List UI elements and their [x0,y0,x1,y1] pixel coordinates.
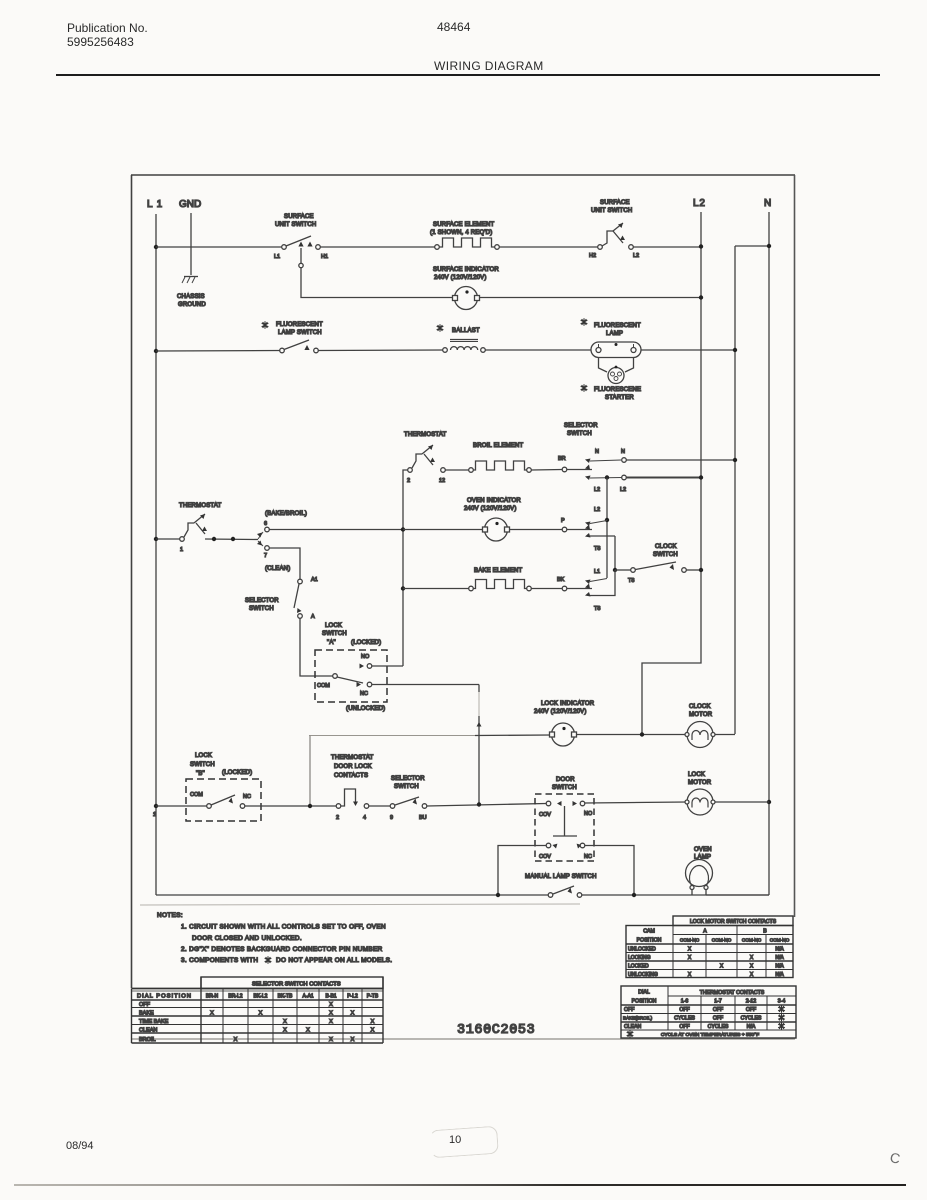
svg-text:1: 1 [153,812,156,818]
wire bake element to BK [532,588,563,590]
svg-text:GND: GND [179,199,201,210]
svg-text:2-12: 2-12 [746,999,756,1005]
terminal BR [558,456,592,472]
wire indicator to L2 bus [480,297,702,299]
junction L2 drop at clock motor row [640,732,644,736]
door-lock selector switch [390,776,427,821]
svg-text:COM-NO: COM-NO [770,938,790,943]
svg-text:BK-TB: BK-TB [278,993,293,999]
svg-text:2. DG"X" DENOTES BACKGUARD CO: 2. DG"X" DENOTES BACKGUARD CONNECTOR PIN… [181,946,383,953]
surface unit switch S2 [589,200,639,259]
svg-text:COM-NC: COM-NC [680,938,700,943]
svg-text:X: X [283,1028,287,1034]
selector contact BK to x607 blade [585,580,591,585]
notes block [157,912,392,964]
wire lock A NO up to bake row [372,665,403,667]
svg-text:COM: COM [190,792,203,798]
junction L2 bus (broil row) [699,475,703,479]
svg-text:OFF: OFF [679,1024,689,1030]
junction L1 row1 [154,245,158,249]
svg-text:H1: H1 [321,254,328,260]
svg-text:DIAL: DIAL [638,990,650,996]
svg-text:L 1: L 1 [147,199,163,210]
wire oven indicator to P terminal [510,529,563,531]
svg-text:6: 6 [264,521,267,527]
junction broil riser at indicator row [401,527,405,531]
junction L1 thermostat row [154,537,158,541]
svg-text:OVEN INDICATOR: OVEN INDICATOR [467,498,521,504]
junction L1 door lock row [154,804,158,808]
svg-text:THERMOSTAT: THERMOSTAT [331,755,374,761]
svg-text:LOCKING: LOCKING [628,955,651,961]
svg-text:BAKE ELEMENT: BAKE ELEMENT [474,568,523,574]
wire switch2 to L2 bus [634,246,702,248]
svg-text:CYCLES: CYCLES [674,1016,695,1022]
svg-text:N/A: N/A [775,955,784,961]
selector switch A1-A [245,577,318,620]
junction x735 at N contact row [733,458,737,462]
surface indicator lamp 240V [433,267,499,310]
wire L1 bus [155,214,157,895]
wire manual lamp switch to oven lamp [582,894,769,896]
terminal on drop [299,263,303,267]
svg-text:X: X [306,1028,310,1034]
svg-text:P: P [561,518,565,524]
wire L2 contact to L2 bus (heavy) [627,477,702,479]
svg-text:7: 7 [264,553,267,559]
svg-text:BALLAST: BALLAST [452,328,480,334]
junction x607 at P row [605,518,609,522]
svg-text:LOCK: LOCK [688,772,705,778]
svg-text:A-A1: A-A1 [302,993,313,999]
junction clock switch left [613,568,617,572]
svg-text:(UNLOCKED): (UNLOCKED) [346,706,385,712]
svg-text:CLEAN: CLEAN [624,1024,642,1030]
ballast [437,324,486,352]
junction L1 row2 [154,349,158,353]
svg-text:X: X [283,1019,287,1025]
svg-text:GROUND: GROUND [178,302,206,308]
header: document number 48464 [437,20,470,34]
wire L1 to fluorescent lamp switch [156,350,280,353]
svg-text:POSITION: POSITION [632,999,657,1005]
svg-text:T8: T8 [594,606,600,612]
selector contact P to T8 [585,533,615,552]
manual lamp switch [525,874,597,897]
svg-text:SWITCH: SWITCH [249,606,274,612]
svg-text:THERMOSTAT CONTACTS: THERMOSTAT CONTACTS [700,990,765,996]
svg-text:OVEN: OVEN [694,847,712,853]
terminal P [561,518,592,532]
svg-text:X: X [329,1011,333,1017]
svg-text:SWITCH: SWITCH [322,631,347,637]
wire lock B to thermostat door lock contacts [245,805,336,807]
wire L1 to surface unit switch [156,246,282,248]
door switch dashed box [535,777,594,861]
wire lock motor to N bus [715,801,769,803]
wire (BAKE/BROIL) to broil riser [270,529,404,531]
svg-text:DOOR CLOSED AND UNLOCKED.: DOOR CLOSED AND UNLOCKED. [192,935,302,942]
svg-text:OFF: OFF [624,1007,634,1013]
clock motor [685,704,715,748]
svg-text:LAMP SWITCH: LAMP SWITCH [278,330,322,336]
svg-text:L2: L2 [594,507,600,513]
wire bake row to BK terminal [403,588,469,590]
wire drop from switch S1 to indicator row [300,248,302,263]
wire door switch lower NC to x634 drop [585,846,634,894]
wire clock motor to x735 riser [715,734,735,736]
svg-text:L2: L2 [633,253,639,259]
svg-text:2: 2 [336,815,339,821]
svg-text:LOCK: LOCK [325,623,342,629]
selector contact (CLEAN) [257,541,290,573]
oven indicator lamp 240V [464,498,521,541]
svg-text:H2: H2 [589,253,596,259]
svg-text:CYCLES: CYCLES [708,1024,729,1030]
svg-text:N/A: N/A [775,964,784,970]
svg-text:A1: A1 [311,577,318,583]
svg-text:NC: NC [243,794,251,800]
svg-text:BAKE(BROIL): BAKE(BROIL) [623,1016,653,1021]
svg-text:UNIT SWITCH: UNIT SWITCH [275,222,316,228]
node L2 [693,198,706,209]
svg-text:COV: COV [539,854,551,860]
svg-text:FLUORESCENT: FLUORESCENT [594,323,641,329]
wire clock switch to L2 bus [687,569,702,571]
wire L1 to lock switch B [156,805,207,807]
wire L2 bus [642,212,701,734]
svg-text:B-B1: B-B1 [325,993,336,999]
svg-text:X: X [351,1011,355,1017]
svg-text:SURFACE ELEMENT: SURFACE ELEMENT [433,222,494,228]
svg-text:SURFACE: SURFACE [284,214,314,220]
bake element [469,568,532,591]
surface unit switch S1 [274,214,328,260]
wire switch to surface element [320,246,435,248]
svg-text:SWITCH: SWITCH [190,762,215,768]
svg-text:3-4: 3-4 [778,999,786,1005]
footer: page number 10 [449,1134,461,1146]
oven thermostat (bake) [179,503,222,553]
svg-text:1: 1 [180,547,183,553]
svg-text:X: X [750,964,754,970]
svg-text:240V (120V/120V): 240V (120V/120V) [534,709,587,715]
svg-text:3. COMPONENTS WITH: 3. COMPONENTS WITH [181,957,258,964]
svg-text:UNIT SWITCH: UNIT SWITCH [591,208,632,214]
wire lamp to N riser [641,349,735,351]
svg-text:CAM: CAM [643,929,655,935]
svg-text:CLOCK: CLOCK [689,704,711,710]
svg-text:X: X [259,1011,263,1017]
junction L2 row1 [699,244,703,248]
svg-text:MANUAL LAMP SWITCH: MANUAL LAMP SWITCH [525,874,597,880]
svg-text:(LOCKED): (LOCKED) [222,770,252,776]
wire switch to ballast [319,349,444,352]
svg-text:SURFACE INDICATOR: SURFACE INDICATOR [433,267,499,273]
node N [764,198,772,209]
svg-text:(1 SHOWN, 4 REQ'D): (1 SHOWN, 4 REQ'D) [430,230,492,236]
node GND [179,199,201,210]
svg-text:240V (120V/120V): 240V (120V/120V) [434,275,487,281]
junction broil riser at bake row [401,586,405,590]
junction x479 at door row [477,802,481,806]
svg-text:NOTES:: NOTES: [157,912,183,919]
svg-text:X: X [688,947,692,953]
svg-text:X: X [371,1028,375,1034]
svg-text:TIME BAKE: TIME BAKE [139,1019,169,1025]
wire T8 riser upper [614,536,616,570]
svg-text:X: X [329,1019,333,1025]
svg-text:BROIL ELEMENT: BROIL ELEMENT [473,443,524,449]
svg-text:DOOR: DOOR [556,777,575,783]
fluorescent lamp [581,318,641,357]
svg-text:OFF: OFF [679,1007,689,1013]
svg-text:9: 9 [390,815,393,821]
clock switch [628,544,686,584]
surface element R1 [430,222,499,249]
wire N contact to x735 riser [627,459,736,461]
oven lamp [686,847,713,895]
svg-text:X: X [329,1037,333,1043]
junction x634 bottom [632,893,636,897]
svg-text:OFF: OFF [746,1007,756,1013]
junction N riser row2 [733,348,737,352]
selector contact P to L2 blade [585,522,591,527]
svg-text:BAKE: BAKE [139,1011,154,1017]
svg-text:DIAL POSITION: DIAL POSITION [137,994,192,1000]
svg-text:L1: L1 [274,254,280,260]
wire element to surface unit switch 2 [500,246,599,248]
svg-text:LAMP: LAMP [606,331,623,337]
footer swirl mark [889,1149,902,1167]
footer smudge around page number [429,1126,499,1159]
wire lock A NC to x479 drop [372,684,479,686]
wire lock indicator to clock motor [577,734,688,736]
svg-text:1-6: 1-6 [681,999,689,1005]
svg-text:MOTOR: MOTOR [688,780,712,786]
svg-text:SELECTOR: SELECTOR [245,598,279,604]
svg-text:L2: L2 [594,487,600,493]
selector contact (BAKE/BROIL) [257,511,307,539]
wire broil element to BR terminal [532,469,563,472]
svg-text:SELECTOR: SELECTOR [564,423,598,429]
selector switch contacts table [132,977,384,1043]
selector switch label (right) [564,423,598,437]
thermostat contacts table [621,986,796,1038]
svg-text:BU: BU [419,815,427,821]
svg-text:UNLOCKING: UNLOCKING [628,972,658,978]
svg-text:COV: COV [539,812,551,818]
svg-text:N: N [764,198,772,209]
svg-text:240V (120V/120V): 240V (120V/120V) [464,506,517,512]
footer: date [66,1140,94,1152]
svg-text:UNLOCKED: UNLOCKED [628,947,656,953]
svg-text:BR: BR [558,456,566,462]
svg-text:FLUORESCENT: FLUORESCENT [276,322,323,328]
header: WIRING DIAGRAM title [434,59,544,75]
wire N bus [768,212,770,895]
junction N at lock motor [767,800,771,804]
svg-text:FLUORESCENE: FLUORESCENE [594,387,641,393]
svg-text:LOCK MOTOR SWITCH CONTACTS: LOCK MOTOR SWITCH CONTACTS [690,919,777,925]
fluorescent lamp switch [262,321,323,353]
svg-text:SURFACE: SURFACE [600,200,630,206]
wire thermostat to selector fork [205,538,258,541]
lock indicator lamp 240V [534,701,595,746]
broil element [469,443,532,472]
selector contact L2 row (broil) [585,475,626,493]
svg-text:1-7: 1-7 [714,999,722,1005]
svg-text:OFF: OFF [139,1002,151,1008]
svg-text:THERMOSTAT: THERMOSTAT [179,503,222,509]
svg-text:(CLEAN): (CLEAN) [265,566,290,572]
svg-text:SELECTOR: SELECTOR [391,776,425,782]
wire thermostat to broil element [446,469,470,471]
svg-text:X: X [234,1037,238,1043]
svg-text:A: A [703,929,707,935]
ground: chassis ground symbol [177,277,206,309]
svg-text:2: 2 [407,478,410,484]
svg-text:BROIL: BROIL [139,1037,156,1043]
lock motor [685,772,715,815]
svg-text:BK-L2: BK-L2 [254,993,268,999]
junction N top [767,244,771,248]
wire selector to door switch [427,804,546,807]
svg-text:N/A: N/A [775,947,784,953]
svg-text:B: B [763,929,767,935]
selector contact N row [585,449,626,463]
svg-text:N: N [595,449,599,455]
svg-text:THERMOSTAT: THERMOSTAT [404,432,447,438]
svg-text:T8: T8 [628,578,634,584]
svg-text:N/A: N/A [775,972,784,978]
junction selector L2 row [605,475,609,479]
riser from lock switch B row up to indicator row [309,736,311,807]
svg-text:BR-N: BR-N [206,993,219,999]
svg-text:1. CIRCUIT SHOWN WITH ALL CON: 1. CIRCUIT SHOWN WITH ALL CONTROLS SET T… [181,924,386,931]
oven thermostat (broil) [404,432,447,484]
junction riser x310 [308,804,312,808]
lock motor switch contacts table [626,916,793,978]
svg-text:CYCLS AT OVEN TEMPERATURES + 5: CYCLS AT OVEN TEMPERATURES + 550°F [661,1032,759,1038]
svg-text:NO: NO [361,654,370,660]
wire x615 to clock switch [615,569,631,571]
fluorescent starter [581,358,642,402]
svg-text:X: X [371,1019,375,1025]
svg-text:MOTOR: MOTOR [689,712,713,718]
junction dots on thermostat wire [212,537,216,541]
svg-text:X: X [210,1011,214,1017]
svg-text:CLEAN: CLEAN [139,1028,157,1034]
terminal BK [557,577,592,591]
svg-text:SWITCH: SWITCH [567,431,592,437]
lock switch B dashed box [186,753,261,821]
svg-text:NC: NC [584,854,592,860]
wire selector riser x607 [606,478,608,579]
svg-text:DOOR LOCK: DOOR LOCK [334,764,372,770]
node L1 [147,199,163,210]
svg-text:LOCK INDICATOR: LOCK INDICATOR [541,701,595,707]
svg-text:X: X [688,955,692,961]
connector arrow on x479 drop [477,722,482,727]
wire door switch lower COV to bottom row [498,846,546,894]
diagram border frame [131,175,795,1039]
svg-text:OFF: OFF [713,1007,723,1013]
svg-text:"B": "B" [196,771,205,777]
svg-text:SWITCH: SWITCH [653,552,678,558]
svg-text:OFF: OFF [713,1016,723,1022]
svg-text:N/A: N/A [747,1024,756,1030]
svg-text:T8: T8 [594,546,600,552]
svg-text:CHASSIS: CHASSIS [177,294,205,300]
wire x479 drop to door row [478,685,480,693]
svg-text:"A": "A" [327,640,336,646]
wire door switch NO to lock motor [585,802,687,803]
svg-text:NC: NC [360,691,368,697]
svg-text:COM: COM [317,683,330,689]
wire broil riser (x=403) [403,470,408,666]
svg-text:4: 4 [363,815,366,821]
svg-text:CONTACTS: CONTACTS [334,773,368,779]
wire lock indicator row left (faint) [309,735,475,737]
svg-text:L1: L1 [594,569,600,575]
svg-text:DO NOT APPEAR ON ALL MODELS.: DO NOT APPEAR ON ALL MODELS. [276,957,392,964]
svg-text:X: X [750,955,754,961]
wire selector A down to lock switch A COM [300,619,333,677]
svg-text:CYCLES: CYCLES [741,1016,762,1022]
junction L2 bus clock row [699,568,703,572]
svg-text:3160C2053: 3160C2053 [457,1023,535,1038]
svg-text:N: N [621,449,625,455]
svg-text:SWITCH: SWITCH [552,785,577,791]
svg-text:(BAKE/BROIL): (BAKE/BROIL) [265,511,307,517]
svg-text:X: X [351,1037,355,1043]
svg-text:LOCK: LOCK [195,753,212,759]
faint scan streak [140,904,580,905]
header rule [56,74,880,76]
svg-text:POSITION: POSITION [637,938,662,944]
svg-text:12: 12 [439,478,445,484]
thermostat door lock contacts [331,755,374,821]
wire oven lamp to N bus corner [706,894,769,896]
lock switch A dashed box [315,623,387,712]
wire N branch (x=735 riser) [734,246,736,734]
svg-text:P-L2: P-L2 [347,993,358,999]
wire ballast to fluorescent lamp [486,349,592,351]
junction x498 bottom [496,893,500,897]
svg-text:BK: BK [557,577,565,583]
svg-text:STARTER: STARTER [605,395,634,401]
wire GND stub [190,213,192,275]
footer bottom scan line [14,1184,906,1186]
svg-text:X: X [329,1002,333,1008]
svg-text:X: X [720,964,724,970]
wire indicator row to P terminal [403,529,482,531]
svg-text:NO: NO [584,811,593,817]
svg-text:L2: L2 [620,487,626,493]
svg-text:SWITCH: SWITCH [394,784,419,790]
svg-text:COM-NC: COM-NC [742,938,762,943]
selector contact BK to T8 lower [585,570,615,612]
header: Publication No. [67,21,148,35]
svg-text:CLOCK: CLOCK [655,544,677,550]
wire L1 bottom corner to manual lamp switch [156,894,548,896]
svg-text:P-TB: P-TB [367,993,379,999]
svg-text:(LOCKED): (LOCKED) [351,640,381,646]
svg-text:BR-L2: BR-L2 [228,993,242,999]
wire top row segment x735 to N [735,245,769,247]
wire contacts to selector [369,805,390,807]
